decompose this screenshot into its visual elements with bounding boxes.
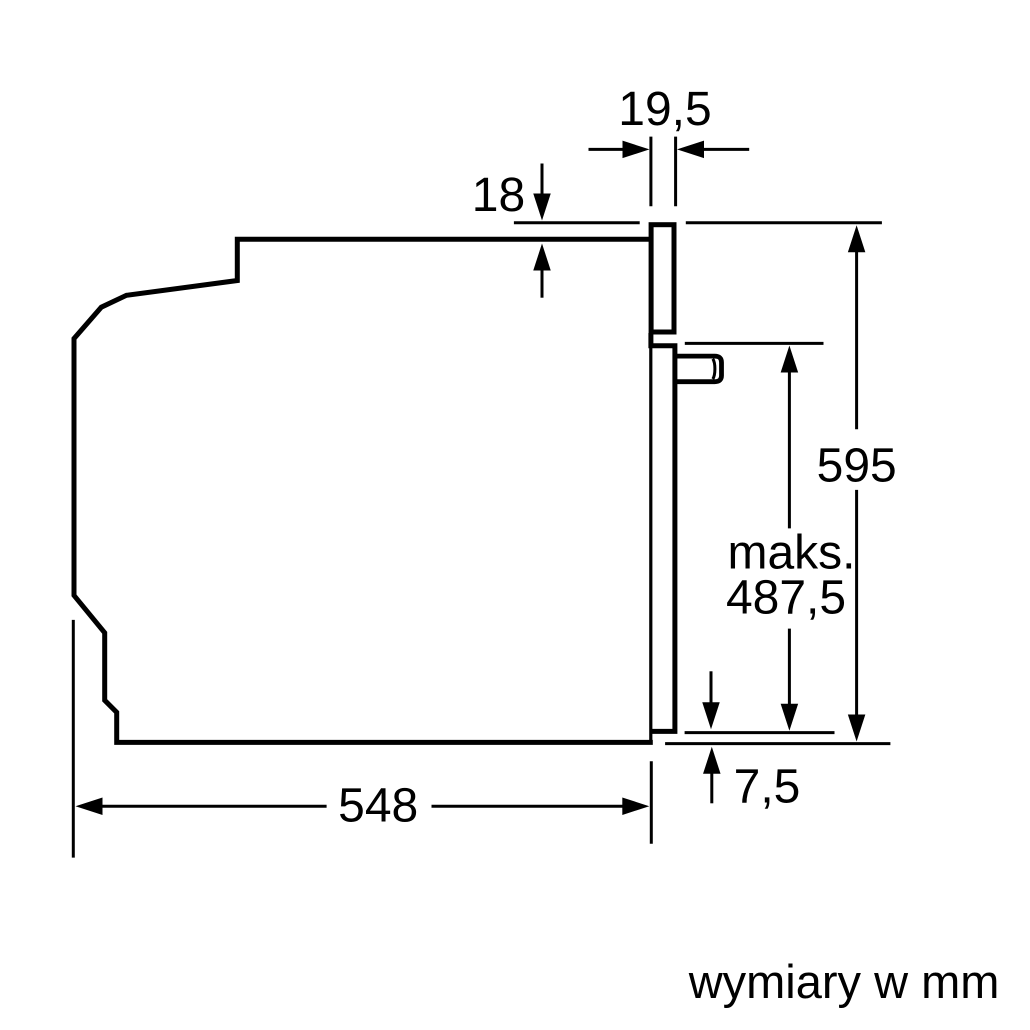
- svg-text:18: 18: [472, 169, 525, 222]
- svg-text:19,5: 19,5: [618, 83, 711, 136]
- svg-text:487,5: 487,5: [726, 572, 846, 625]
- svg-text:548: 548: [338, 780, 418, 833]
- svg-text:wymiary w mm: wymiary w mm: [688, 955, 1000, 1008]
- svg-text:7,5: 7,5: [734, 761, 801, 814]
- svg-text:595: 595: [817, 440, 897, 493]
